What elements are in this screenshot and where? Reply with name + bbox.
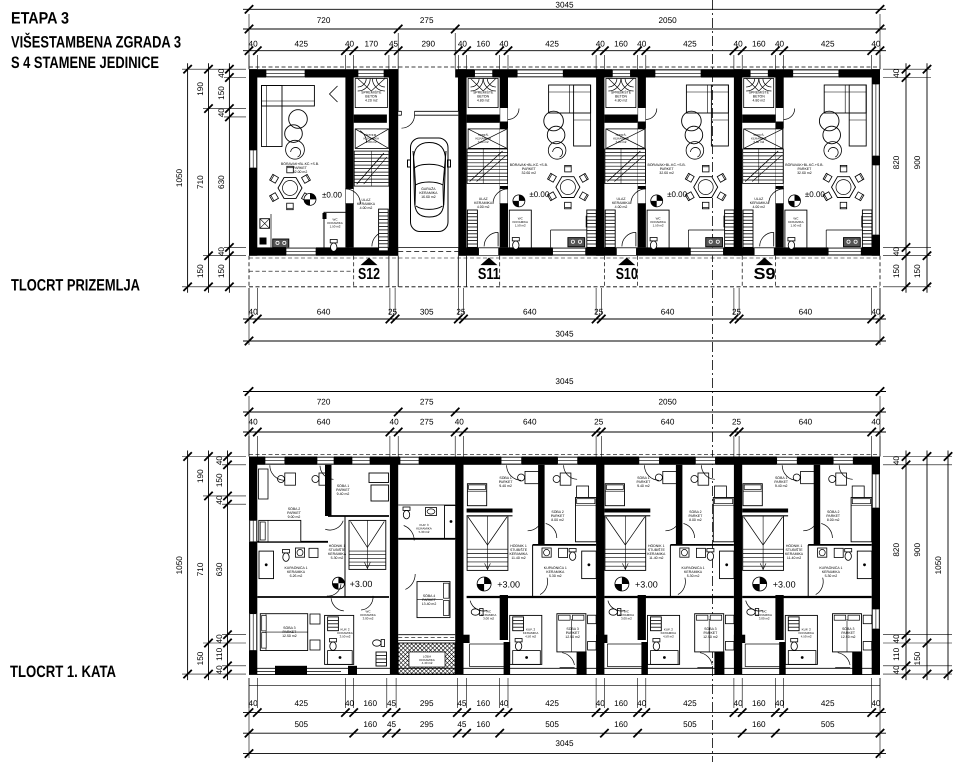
spremiste X room: [606, 129, 645, 149]
garage front line: [398, 110, 458, 112]
svg-text:630: 630: [215, 562, 224, 576]
svg-text:5.30 m2: 5.30 m2: [687, 574, 700, 578]
dimension floor1 top overall 3045: [243, 391, 886, 393]
shaft louvres right: [587, 210, 597, 247]
svg-text:25: 25: [732, 308, 742, 317]
ground storage room wall: [604, 115, 637, 123]
floor1 windows top: [639, 457, 660, 465]
S12 entry door arc: [372, 231, 387, 246]
svg-text:720: 720: [317, 398, 331, 407]
svg-text:40: 40: [217, 108, 226, 118]
canopy dashed line floor1 top: [249, 453, 880, 455]
svg-text:640: 640: [661, 308, 675, 317]
soba1 bed: [743, 484, 762, 506]
dimension floor1 bottom detail row: [243, 712, 886, 714]
S12 dining table: [278, 178, 302, 199]
dimension ground right 900/150: [926, 63, 928, 293]
kitchen sink: [586, 216, 595, 227]
svg-text:4.40 m2: 4.40 m2: [422, 661, 433, 665]
armchair circles: [819, 111, 839, 131]
svg-text:2050: 2050: [658, 398, 677, 407]
S12 stairs: [354, 151, 389, 186]
svg-text:505: 505: [821, 720, 835, 729]
svg-text:3.00 m2: 3.00 m2: [621, 616, 632, 620]
svg-text:5.30 m2: 5.30 m2: [331, 556, 344, 560]
extension lines floor1 bottom: [248, 678, 250, 708]
svg-text:710: 710: [196, 175, 205, 189]
kitchen sink: [724, 216, 733, 227]
svg-text:4.80 m2: 4.80 m2: [752, 99, 765, 103]
svg-text:505: 505: [683, 720, 697, 729]
floor1 unit S10: [604, 457, 734, 675]
svg-text:S10: S10: [616, 266, 638, 283]
svg-text:+3.00: +3.00: [635, 580, 658, 590]
dimension ground left 190/710/150: [208, 63, 210, 293]
kupaonica1 fixtures: [818, 548, 827, 557]
svg-text:160: 160: [752, 699, 766, 708]
svg-text:40: 40: [892, 68, 901, 78]
svg-text:25: 25: [594, 418, 604, 427]
soba3 terrace door arc: [700, 653, 712, 665]
svg-text:40: 40: [249, 699, 259, 708]
stairs floor1: [743, 516, 784, 570]
svg-text:9.40 m2: 9.40 m2: [499, 484, 512, 488]
svg-text:4.00 m2: 4.00 m2: [752, 205, 765, 209]
floor1 unit S11: [467, 457, 597, 675]
svg-text:305: 305: [420, 308, 434, 317]
floor1 windows top: [501, 457, 521, 465]
svg-text:3.00 m2: 3.00 m2: [483, 616, 494, 620]
dimension ground left detail: [228, 63, 230, 293]
soba4 room: [417, 582, 450, 618]
S12f kup2: [325, 615, 354, 664]
dimension floor1 bottom overall 3045: [243, 753, 886, 755]
plant: [548, 142, 566, 160]
elevation marker 3.00: [477, 577, 491, 591]
svg-text:6.26 m2: 6.26 m2: [290, 574, 303, 578]
svg-text:160: 160: [614, 40, 628, 49]
entry door arc: [622, 232, 636, 246]
svg-text:900: 900: [913, 155, 922, 169]
wc room: [609, 609, 621, 616]
wall opening at stairs: [500, 129, 508, 187]
S12 window top storage: [358, 70, 384, 78]
svg-text:505: 505: [294, 720, 308, 729]
svg-text:40: 40: [637, 40, 647, 49]
svg-text:40: 40: [871, 308, 881, 317]
svg-text:170: 170: [364, 40, 378, 49]
svg-text:4.00 m2: 4.00 m2: [615, 205, 628, 209]
svg-text:40: 40: [215, 495, 224, 505]
svg-text:40: 40: [871, 699, 881, 708]
floor1 middle section side walls: [390, 457, 398, 675]
ground storage room wall: [742, 115, 775, 123]
svg-text:1.50 m2: 1.50 m2: [653, 224, 664, 228]
svg-text:275: 275: [420, 16, 434, 25]
dimension ground top 720/275/2050: [243, 28, 886, 30]
living room door: [500, 189, 507, 204]
balcony: [470, 644, 507, 667]
floor1 party wall: [596, 457, 604, 675]
wc room: [747, 609, 759, 616]
stairs ground: [605, 149, 646, 184]
svg-text:45: 45: [387, 699, 397, 708]
canopy dashed line ground top: [249, 66, 880, 68]
floor1 middle top window: [400, 457, 419, 465]
svg-text:3.60 m2: 3.60 m2: [753, 140, 764, 144]
svg-text:45: 45: [387, 720, 397, 729]
soba1 desk: [525, 471, 539, 483]
soba1 desk: [663, 471, 677, 483]
S12 plant: [286, 140, 305, 159]
S12 living door: [346, 189, 353, 204]
svg-text:150: 150: [215, 473, 224, 487]
S12 sofa: [262, 86, 315, 107]
svg-text:40: 40: [499, 699, 509, 708]
wc door arc: [470, 601, 487, 611]
svg-text:640: 640: [523, 308, 537, 317]
svg-text:1.60 m2: 1.60 m2: [366, 140, 377, 144]
window top storage: [475, 70, 493, 78]
svg-text:40: 40: [775, 699, 785, 708]
svg-text:425: 425: [294, 699, 308, 708]
dimension floor1 right 40/820/40/110/40: [905, 451, 907, 681]
S12 window left wall: [249, 150, 257, 168]
S12f wall soba split: [325, 465, 332, 516]
svg-text:150: 150: [217, 86, 226, 100]
S12 sprem room: [355, 129, 389, 149]
svg-text:150: 150: [913, 651, 922, 665]
dining table with chairs: [694, 177, 718, 198]
ground unit S9: [743, 70, 872, 284]
soba3 nightstands: [588, 615, 597, 624]
window top living: [655, 70, 701, 78]
dining table with chairs: [556, 177, 580, 198]
floor1 bottom window lines S12: [256, 671, 275, 673]
svg-text:40: 40: [455, 418, 465, 427]
S12f elevation marker: [332, 577, 344, 589]
ground unit S12: [249, 70, 389, 284]
svg-text:820: 820: [892, 155, 901, 169]
dimension ground top detail row: [243, 50, 886, 52]
svg-text:160: 160: [614, 720, 628, 729]
S12f soba2 bed: [259, 520, 301, 541]
soba2 dresser: [577, 486, 589, 498]
svg-text:S9: S9: [754, 266, 776, 283]
stairs floor1: [605, 516, 646, 570]
kitchen stove: [706, 238, 723, 247]
armchair circles: [544, 111, 564, 131]
svg-text:25: 25: [456, 308, 466, 317]
svg-text:40: 40: [892, 634, 901, 644]
svg-text:40: 40: [734, 40, 744, 49]
floor1 unit S12: [249, 457, 389, 666]
floor1 lower canopy line: [249, 684, 880, 686]
floor1 unit interior wall: [775, 595, 783, 640]
soba2 desk: [836, 473, 847, 485]
kup3 door arc: [404, 526, 415, 541]
kupaonica1 fixtures: [542, 548, 551, 557]
svg-text:5.30 m2: 5.30 m2: [419, 530, 430, 534]
svg-text:710: 710: [196, 562, 205, 576]
ground porch inner dashed: [249, 270, 354, 272]
dining table with chairs: [832, 177, 856, 198]
svg-text:40: 40: [596, 699, 606, 708]
floor1 right outer wall: [872, 457, 880, 675]
soba2 door arc: [684, 524, 695, 539]
extension lines floor1 left: [182, 456, 246, 458]
storage room SPREMISTE: [744, 79, 774, 108]
kupaonica wall: [532, 545, 534, 597]
wc room: [471, 609, 483, 616]
entry door arc: [484, 232, 498, 246]
floor1 unit interior wall: [500, 595, 508, 640]
soba2 room: [538, 465, 545, 545]
svg-text:4.00 m2: 4.00 m2: [360, 206, 373, 210]
svg-text:40: 40: [390, 418, 400, 427]
svg-text:4.50 m2: 4.50 m2: [525, 634, 536, 638]
extension lines floor1 top: [248, 436, 250, 457]
window bottom living: [828, 248, 861, 256]
svg-text:±0.00: ±0.00: [667, 190, 688, 199]
plant: [686, 142, 704, 160]
svg-text:12.50 m2: 12.50 m2: [841, 635, 856, 639]
svg-text:150: 150: [196, 264, 205, 278]
dimension floor1 top 720/275/2050: [243, 411, 886, 413]
elevation marker 0.00: [651, 195, 663, 207]
entry door gap bottom: [616, 248, 636, 255]
WC room: [785, 210, 807, 250]
svg-text:40: 40: [734, 699, 744, 708]
svg-text:3045: 3045: [555, 377, 574, 386]
svg-text:640: 640: [317, 418, 331, 427]
svg-text:3.60 m2: 3.60 m2: [616, 140, 627, 144]
svg-text:3.60 m2: 3.60 m2: [478, 140, 489, 144]
shaft louvres left: [605, 210, 615, 247]
window top living: [793, 70, 839, 78]
svg-text:505: 505: [545, 720, 559, 729]
soba2 desk: [560, 473, 571, 485]
svg-text:2050: 2050: [658, 16, 677, 25]
svg-text:8.00 m2: 8.00 m2: [827, 518, 840, 522]
svg-text:160: 160: [363, 699, 377, 708]
svg-text:40: 40: [249, 40, 259, 49]
S12f top door arcs: [270, 465, 285, 480]
svg-text:160: 160: [476, 720, 490, 729]
S12f desks: [285, 473, 296, 485]
ground storage room wall: [467, 115, 500, 123]
balcony: [745, 644, 782, 667]
car: [408, 138, 451, 232]
armchair circles: [682, 111, 702, 131]
ground unit S11: [467, 70, 596, 284]
svg-text:40: 40: [871, 418, 881, 427]
kup2 room: [785, 615, 817, 664]
svg-text:VIŠESTAMBENA ZGRADA 3: VIŠESTAMBENA ZGRADA 3: [11, 33, 181, 52]
svg-text:40: 40: [892, 247, 901, 257]
elevation marker 0.00: [789, 195, 801, 207]
floor1 middle rooms: [314, 457, 593, 674]
svg-text:160: 160: [476, 40, 490, 49]
floor1 outer bottom edge double line: [249, 667, 880, 669]
floor1 inner bottom wall segments: [458, 635, 469, 643]
soba3 bed: [695, 614, 724, 652]
svg-text:160: 160: [752, 720, 766, 729]
dimension floor1 right 1050: [947, 451, 949, 681]
plant: [824, 142, 842, 160]
floor1 unit S9: [742, 457, 872, 675]
soba3 bed: [833, 614, 862, 652]
living room door: [776, 189, 783, 204]
S12 dark appliance: [260, 238, 267, 245]
floor1 left outer wall: [249, 457, 257, 675]
S12f windows left: [249, 520, 257, 541]
wall opening at stairs: [638, 129, 646, 187]
soba3 nightstands: [863, 615, 872, 624]
svg-text:820: 820: [892, 543, 901, 557]
svg-text:13.40 m2: 13.40 m2: [422, 602, 437, 606]
svg-text:32.60 m2: 32.60 m2: [797, 171, 812, 175]
svg-text:32.60 m2: 32.60 m2: [659, 171, 674, 175]
svg-text:40: 40: [499, 40, 509, 49]
dimension ground right 40/820/40/150: [905, 63, 907, 293]
bottom posts: [779, 642, 786, 675]
svg-text:640: 640: [523, 418, 537, 427]
ground right outer wall: [872, 69, 880, 256]
svg-text:16.60 m2: 16.60 m2: [421, 195, 436, 199]
svg-text:45: 45: [457, 699, 467, 708]
floor1 outer top wall: [249, 457, 880, 465]
wall opening at stairs: [776, 129, 784, 187]
S12f windows top: [265, 457, 285, 465]
wc door arc: [746, 601, 763, 611]
soba2 top door arc: [564, 465, 578, 479]
kitchen counter: [687, 230, 689, 247]
dimension ground left 1050: [187, 63, 189, 293]
svg-text:110: 110: [215, 647, 224, 660]
svg-text:425: 425: [294, 40, 308, 49]
svg-text:640: 640: [799, 418, 813, 427]
entry door gap bottom: [479, 248, 499, 255]
svg-text:40: 40: [215, 634, 224, 644]
svg-text:25: 25: [594, 308, 604, 317]
dimension floor1 top detail row: [243, 431, 886, 433]
ground storage room wall: [354, 115, 387, 123]
svg-text:110: 110: [892, 647, 901, 660]
svg-text:160: 160: [752, 40, 766, 49]
svg-text:40: 40: [249, 418, 259, 427]
dimension ground bottom overall 3045: [243, 340, 886, 342]
soba1 room: [742, 509, 788, 513]
svg-text:640: 640: [799, 308, 813, 317]
svg-text:425: 425: [545, 40, 559, 49]
soba2 bed: [576, 498, 597, 542]
svg-text:45: 45: [389, 40, 399, 49]
shaft louvres left: [743, 210, 753, 247]
svg-text:45: 45: [457, 720, 467, 729]
svg-text:9.40 m2: 9.40 m2: [637, 484, 650, 488]
window bottom living: [690, 248, 723, 256]
S12 elevation marker: [304, 193, 316, 205]
spremiste X room: [744, 129, 783, 149]
svg-text:1050: 1050: [934, 556, 943, 575]
svg-text:11.40 m2: 11.40 m2: [649, 556, 663, 560]
soba3 terrace door arc: [838, 653, 850, 665]
svg-text:150: 150: [913, 264, 922, 278]
svg-text:5.30 m2: 5.30 m2: [825, 574, 838, 578]
stairs ground: [467, 149, 508, 184]
svg-text:720: 720: [317, 16, 331, 25]
living room door: [638, 189, 645, 204]
dimension floor1 right 900/150: [926, 451, 928, 681]
S12f wc shaft: [376, 652, 387, 666]
ground floor building group: [249, 67, 880, 287]
svg-text:S 4 STAMENE JEDINICE: S 4 STAMENE JEDINICE: [11, 54, 159, 72]
S12 armchair circles: [289, 110, 308, 129]
ground unit S10: [605, 70, 734, 284]
window bottom living: [553, 248, 586, 256]
svg-text:3.50 m2: 3.50 m2: [340, 634, 351, 638]
svg-text:4.80 m2: 4.80 m2: [477, 99, 490, 103]
svg-text:12.50 m2: 12.50 m2: [282, 634, 297, 638]
svg-text:1050: 1050: [175, 168, 184, 187]
svg-text:150: 150: [196, 651, 205, 665]
soba2 room: [814, 465, 821, 545]
bottom posts: [504, 642, 511, 675]
soba2 dresser: [852, 486, 864, 498]
soba1 door arc: [665, 516, 680, 531]
svg-text:4.00 m2: 4.00 m2: [477, 205, 490, 209]
floor1 mid wall: [742, 596, 872, 598]
svg-text:640: 640: [317, 308, 331, 317]
sofa: [824, 85, 866, 113]
extension lines floor1 right: [883, 456, 952, 458]
soba2 top door arc: [839, 465, 853, 479]
S12 stove: [273, 239, 289, 248]
svg-text:+3.00: +3.00: [773, 580, 796, 590]
stairs ground: [743, 149, 784, 184]
ground S9 right wall windows: [872, 84, 880, 156]
dimension ground top overall 3045: [243, 8, 886, 10]
first floor building group: [249, 84, 880, 685]
svg-text:±0.00: ±0.00: [805, 190, 826, 199]
svg-text:160: 160: [363, 720, 377, 729]
S12 porch label: [361, 258, 378, 266]
floor1 mid wall: [467, 596, 596, 598]
svg-text:630: 630: [217, 175, 226, 189]
living top door: [638, 108, 645, 122]
svg-text:425: 425: [683, 699, 697, 708]
svg-text:900: 900: [913, 543, 922, 557]
svg-text:3045: 3045: [555, 1, 574, 10]
svg-text:+3.00: +3.00: [497, 580, 520, 590]
svg-text:190: 190: [196, 469, 205, 483]
svg-text:3.00 m2: 3.00 m2: [363, 616, 374, 620]
unit label S11: [480, 258, 497, 266]
svg-text:11.40 m2: 11.40 m2: [511, 556, 525, 560]
kupaonica door arc: [540, 578, 548, 595]
soba2 bed: [851, 498, 872, 542]
svg-text:160: 160: [476, 699, 490, 708]
svg-text:3045: 3045: [555, 330, 574, 339]
ground porch dashed outline: [249, 286, 880, 288]
S12f stairs: [349, 520, 386, 569]
living top door: [500, 108, 507, 122]
svg-text:4.80 m2: 4.80 m2: [615, 99, 628, 103]
ground left outer wall: [249, 69, 257, 256]
svg-text:11.40 m2: 11.40 m2: [787, 556, 801, 560]
soba1 door arc: [528, 516, 543, 531]
